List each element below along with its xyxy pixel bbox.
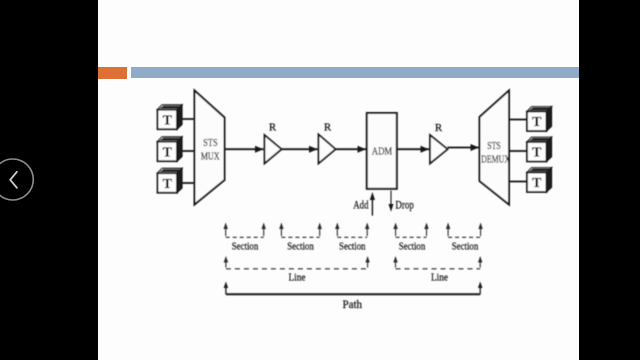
blue header rule [131,67,579,78]
tributary T1 box (left top) [158,105,183,129]
path span bracket [224,282,483,295]
Drop down-arrow out of ADM [389,191,394,212]
wire ADM to R3 with arrowhead [397,146,429,153]
tributary T3 box (left bottom) [158,168,183,192]
section span 3 bracket [335,223,369,238]
regenerator R2 triangle [319,122,336,164]
wire R3 to DEMUX with arrowhead [448,144,480,151]
wire T2 to MUX [182,150,195,152]
right black sidebar [579,0,640,360]
wire MUX to R1 with arrowhead [225,146,264,153]
svg-text:Line: Line [431,272,448,284]
svg-text:Section: Section [232,241,259,253]
line span 1 bracket [224,256,370,269]
svg-text:DEMUX: DEMUX [481,153,510,165]
svg-text:R: R [269,122,277,134]
back nav circle button [0,0,40,360]
svg-text:Section: Section [452,241,479,253]
STS DEMUX trapezoid [480,91,511,205]
regenerator R1 triangle [265,122,282,164]
svg-text:Add: Add [353,198,368,212]
wire DEMUX to T6 [509,181,527,183]
svg-text:R: R [324,122,332,134]
svg-text:T: T [163,177,173,192]
orange accent block [98,67,127,79]
svg-text:T: T [532,176,542,191]
svg-text:STS: STS [203,137,218,149]
left black sidebar [0,0,98,360]
wire R1 to R2 with arrowhead [282,146,318,153]
svg-text:R: R [435,122,443,134]
wire T3 to MUX [182,182,195,184]
tributary T4 box (right top) [527,107,552,131]
regenerator R3 triangle [430,122,448,164]
section span 2 bracket [279,223,322,238]
STS MUX trapezoid [195,91,225,205]
ADM add-drop multiplexer box [367,113,397,189]
svg-text:Drop: Drop [395,198,414,212]
wire T1 to MUX [182,118,195,120]
section span 5 bracket [446,223,483,238]
tributary T6 box (right bottom) [527,168,552,192]
wire DEMUX to T5 [509,150,527,152]
svg-text:Section: Section [399,241,426,253]
svg-text:T: T [163,145,173,160]
wire DEMUX to T4 [509,119,527,121]
section span 1 bracket [224,223,266,238]
wire R2 to ADM with arrowhead [336,146,367,153]
svg-text:Section: Section [287,241,314,253]
section span 4 bracket [393,223,428,238]
svg-text:Line: Line [289,272,306,284]
svg-text:ADM: ADM [372,146,393,158]
svg-text:Path: Path [343,297,363,311]
svg-text:T: T [163,113,173,128]
svg-text:T: T [532,146,542,161]
svg-text:T: T [532,115,542,130]
line span 2 bracket [393,256,482,269]
svg-text:MUX: MUX [201,151,220,163]
svg-text:STS: STS [487,140,501,152]
tributary T5 box (right middle) [527,137,552,161]
Add up-arrow into ADM [370,192,375,216]
svg-text:Section: Section [339,241,366,253]
tributary T2 box (left middle) [158,137,183,161]
